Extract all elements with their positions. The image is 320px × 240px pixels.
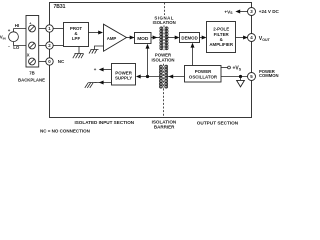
- svg-text:DEMOD: DEMOD: [181, 36, 197, 41]
- svg-text:7B31: 7B31: [54, 4, 66, 10]
- wire -V out of power supply with ground: [88, 82, 111, 84]
- wire carrier to MOD: [147, 48, 149, 77]
- block POWER OSCILLATOR: [185, 66, 222, 83]
- svg-text:7B: 7B: [29, 71, 35, 76]
- wire power common to pin 5: [221, 76, 248, 78]
- block 2-POLE FILTER & AMPLIFIER: [207, 22, 236, 53]
- wire signal transformer to DEMOD: [167, 37, 176, 39]
- ground chassis at -V: [85, 83, 93, 88]
- svg-text:+: +: [29, 21, 31, 25]
- junction node: [146, 75, 149, 78]
- block MOD: [135, 33, 152, 44]
- analog common triangle: [240, 77, 242, 81]
- svg-text:NC: NC: [58, 59, 65, 64]
- svg-text:+24 V DC: +24 V DC: [259, 9, 280, 14]
- screw terminal HI: [29, 25, 36, 32]
- wire LO from source to backplane: [14, 42, 27, 46]
- wire HI from source to backplane: [14, 29, 27, 32]
- isolation barrier dashed line (bottom segment): [163, 89, 165, 118]
- wire screw LO to pin 2: [39, 45, 46, 47]
- wire screw X to pin 0: [39, 61, 46, 63]
- svg-text:OSCILLATOR: OSCILLATOR: [189, 74, 218, 79]
- svg-text:AMP: AMP: [107, 36, 117, 41]
- op-amp AMP: [104, 24, 127, 51]
- isolation barrier dashed line (top segment): [164, 3, 166, 16]
- svg-text:LO: LO: [13, 45, 20, 50]
- svg-text:ISOLATED INPUT SECTION: ISOLATED INPUT SECTION: [74, 120, 134, 125]
- wire DEMOD to power oscillator sync: [192, 47, 194, 66]
- block POWER SUPPLY: [112, 64, 136, 86]
- wire MOD to signal transformer: [151, 37, 160, 39]
- svg-text:BARRIER: BARRIER: [154, 124, 175, 129]
- wire pin 3 +VS: [240, 11, 248, 13]
- wire AMP to MOD: [127, 37, 135, 39]
- svg-text:AMPLIFIER: AMPLIFIER: [209, 42, 233, 47]
- svg-text:ISOLATION: ISOLATION: [151, 58, 174, 63]
- wire DEMOD to filter: [200, 37, 204, 39]
- svg-text:BACKPLANE: BACKPLANE: [18, 78, 45, 83]
- pin 5: [248, 73, 256, 81]
- svg-text:POWER: POWER: [195, 69, 212, 74]
- svg-text:NC = NO CONNECTION: NC = NO CONNECTION: [40, 128, 90, 133]
- svg-text:ISOLATION: ISOLATION: [153, 20, 176, 25]
- wire pin2 to PROT: [53, 45, 63, 47]
- svg-text:COMMON: COMMON: [259, 73, 279, 78]
- module box 7B31: [50, 3, 252, 118]
- connector 7B backplane: [26, 16, 39, 68]
- pin 1: [46, 25, 53, 32]
- source VIN: [9, 32, 19, 42]
- pin 3: [248, 8, 256, 16]
- svg-text:OUTPUT SECTION: OUTPUT SECTION: [197, 121, 239, 126]
- screw terminal LO: [29, 42, 36, 49]
- wire filter to pin 4: [236, 37, 245, 39]
- block DEMOD: [180, 33, 200, 43]
- svg-text:HI: HI: [15, 23, 19, 28]
- transformer signal isolation: [160, 25, 168, 50]
- svg-text:SUPPLY: SUPPLY: [115, 76, 132, 81]
- pin 2: [46, 42, 53, 49]
- wire pin1 to PROT: [53, 28, 63, 30]
- wire PROT to AMP: [89, 32, 100, 34]
- svg-text:X: X: [27, 53, 30, 58]
- block PROT & LPF: [64, 23, 89, 47]
- ground at AMP input: [89, 46, 104, 54]
- screw terminal X: [29, 58, 36, 65]
- wire +VS tap from power oscillator: [221, 67, 228, 69]
- pin 4: [248, 34, 256, 42]
- transformer power isolation: [159, 64, 167, 89]
- wire power oscillator to power transformer: [166, 76, 184, 78]
- svg-text:+VS: +VS: [224, 9, 233, 15]
- svg-text:2-POLE: 2-POLE: [213, 27, 229, 32]
- svg-text:+: +: [94, 67, 97, 72]
- ground below PROT: [73, 47, 84, 59]
- svg-text:LPF: LPF: [72, 36, 81, 41]
- svg-text:+: +: [8, 28, 11, 33]
- wire power transformer to power supply: [140, 76, 160, 78]
- wire +V out of power supply: [102, 69, 112, 71]
- svg-text:MOD: MOD: [137, 36, 149, 42]
- junction node: [239, 75, 242, 78]
- wire screw HI to pin 1: [39, 28, 46, 30]
- pin 0 NC: [46, 58, 53, 65]
